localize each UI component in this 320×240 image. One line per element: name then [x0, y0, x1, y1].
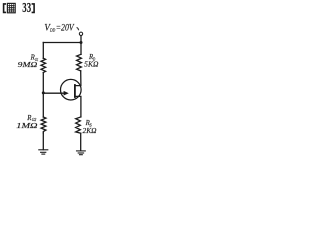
svg-text:2KΩ: 2KΩ [83, 126, 98, 135]
title bracket right [32, 4, 34, 13]
title bracket left [4, 4, 7, 13]
resistor RS [76, 117, 81, 133]
transistor Q1 circle [61, 79, 82, 100]
resistor RG1 [41, 58, 46, 72]
resistor RG2 [41, 117, 46, 133]
transistor Q1 source lead [75, 96, 81, 117]
svg-text:33: 33 [22, 0, 31, 15]
wire VDD stub [80, 36, 82, 43]
junction dot gate node [42, 91, 45, 94]
wire gate [43, 92, 65, 94]
wire source lower [80, 133, 82, 150]
title glyph 圖 [7, 3, 15, 12]
wire left branch middle [42, 73, 44, 117]
wire top rail [43, 42, 81, 44]
svg-text:=20V: =20V [56, 22, 75, 32]
svg-text:1MΩ: 1MΩ [16, 121, 38, 130]
wire left branch lower [42, 133, 44, 150]
svg-text:5KΩ: 5KΩ [84, 60, 99, 69]
svg-text:DD: DD [49, 28, 56, 33]
transistor Q1 channel bar [74, 85, 76, 97]
wire right branch upper [80, 43, 82, 55]
junction dot top [80, 41, 83, 44]
wire drain [75, 71, 81, 86]
ground left [39, 150, 48, 154]
transistor Q1 gate arrow [64, 91, 69, 96]
ground right [77, 151, 86, 155]
wire left branch upper [42, 43, 44, 59]
stray mark [77, 27, 79, 30]
resistor RD [77, 54, 82, 71]
terminal VDD circle [79, 32, 82, 35]
svg-text:9MΩ: 9MΩ [18, 60, 38, 69]
